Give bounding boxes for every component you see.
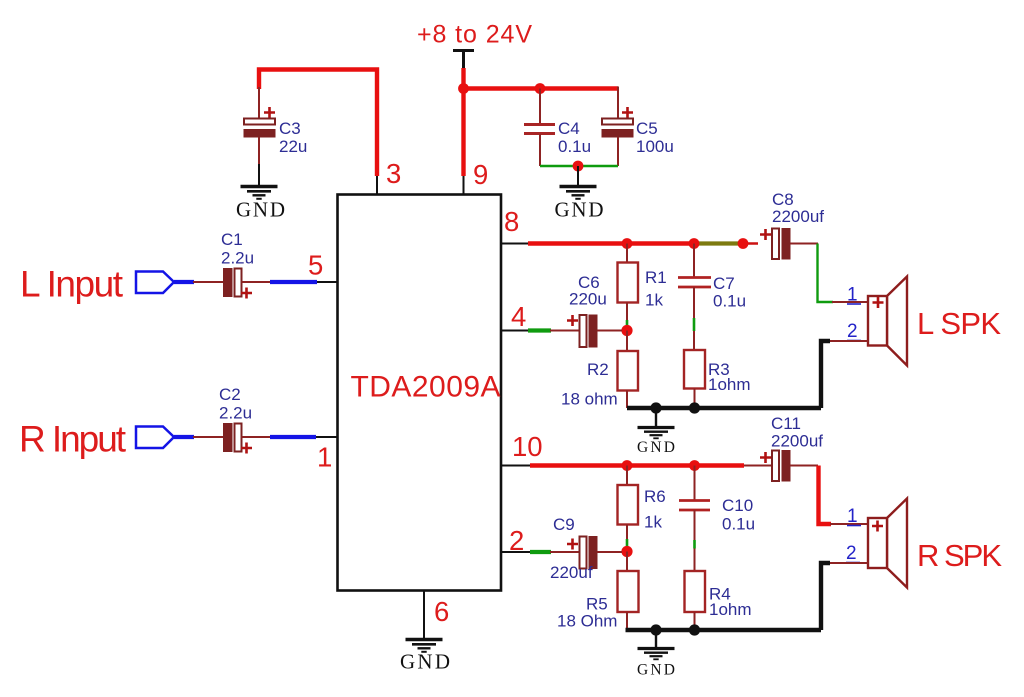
capacitor C6	[567, 273, 622, 347]
svg-text:1: 1	[847, 506, 858, 527]
node pin2 junction	[621, 546, 632, 557]
wire to C1	[193, 281, 224, 283]
node pin4 junction	[621, 325, 632, 336]
svg-text:TDA2009A: TDA2009A	[351, 371, 501, 404]
connector L input	[136, 272, 174, 294]
svg-text:2: 2	[847, 321, 858, 342]
svg-text:GND: GND	[400, 650, 450, 674]
node C7 top	[689, 238, 700, 249]
svg-text:L SPK: L SPK	[917, 306, 1001, 341]
svg-text:1k: 1k	[645, 291, 663, 310]
capacitor C4	[524, 89, 591, 167]
ground C4 C5	[555, 166, 604, 222]
svg-text:GND: GND	[637, 439, 675, 456]
wire R ground rail	[626, 628, 822, 632]
resistor R2	[561, 331, 638, 409]
resistor R5	[557, 552, 639, 631]
wire C2 out	[242, 436, 272, 438]
pin 8 wire	[502, 243, 530, 245]
IC U1 TDA2009A	[338, 195, 502, 591]
svg-text:C4: C4	[558, 119, 580, 138]
pin 4 wire	[502, 330, 530, 332]
svg-text:R1: R1	[645, 268, 667, 287]
node cap gnd junction	[573, 161, 584, 172]
svg-text:C9: C9	[553, 515, 575, 534]
wire pin 9 feed	[461, 89, 465, 177]
ground L channel	[637, 408, 675, 456]
svg-text:C11: C11	[771, 414, 801, 433]
wire C3 to pin 3	[259, 70, 377, 177]
svg-text:0.1u: 0.1u	[713, 292, 746, 311]
ground C3	[236, 164, 285, 222]
svg-text:R Input: R Input	[19, 419, 127, 460]
capacitor C3	[244, 87, 307, 165]
wire supply rail	[464, 86, 619, 90]
pin 10 wire	[502, 465, 532, 467]
svg-text:2200uf: 2200uf	[771, 432, 823, 451]
svg-text:9: 9	[473, 159, 488, 190]
svg-text:10: 10	[512, 431, 543, 462]
resistor R6	[618, 466, 666, 548]
svg-text:18 ohm: 18 ohm	[561, 390, 618, 409]
wire L ground rail	[627, 406, 821, 410]
wire blue pin1	[270, 435, 316, 439]
svg-text:18 Ohm: 18 Ohm	[557, 612, 617, 631]
svg-text:6: 6	[434, 596, 449, 627]
capacitor C10	[679, 466, 755, 572]
svg-text:100u: 100u	[636, 137, 674, 156]
wire cap ground bus	[540, 165, 618, 168]
power terminal	[453, 51, 474, 70]
svg-text:C5: C5	[636, 119, 658, 138]
wire SPK2 black	[821, 341, 830, 408]
wire R SPK2 stub	[829, 562, 868, 564]
node C4 tap	[535, 83, 546, 94]
capacitor C2	[219, 385, 252, 454]
wire blue pin5	[270, 280, 317, 284]
pin 2 wire	[502, 551, 532, 553]
node R gnd tap	[650, 624, 661, 635]
svg-text:3: 3	[386, 158, 401, 189]
svg-text:C3: C3	[279, 119, 301, 138]
ground pin 6	[400, 640, 450, 674]
wire supply drop	[461, 68, 465, 89]
svg-text:R6: R6	[644, 487, 666, 506]
wire R SPK2 black	[821, 563, 830, 630]
svg-text:1k: 1k	[644, 513, 662, 532]
node R1 top	[622, 238, 633, 249]
node R6 top	[622, 460, 633, 471]
speaker L SPK	[868, 277, 907, 366]
svg-text:4: 4	[511, 301, 526, 332]
capacitor C8	[760, 190, 824, 259]
wire R SPK1 stub	[830, 523, 868, 525]
svg-text:2: 2	[846, 543, 857, 564]
wire L in blue stub	[174, 280, 194, 284]
node C10 top	[689, 460, 700, 471]
wire C1 out	[242, 281, 272, 283]
wire C11 to SPK1 red	[819, 466, 832, 525]
ground R channel	[637, 630, 675, 679]
svg-text:C7: C7	[713, 274, 735, 293]
svg-text:2: 2	[509, 525, 524, 556]
svg-text:8: 8	[504, 206, 519, 237]
node supply junction	[458, 83, 469, 94]
svg-text:1: 1	[847, 285, 858, 306]
svg-text:0.1u: 0.1u	[558, 137, 591, 156]
wire SPK1 stub	[832, 301, 868, 303]
node L gnd tap	[650, 402, 661, 413]
svg-text:220uf: 220uf	[550, 563, 593, 582]
svg-text:1: 1	[317, 442, 332, 473]
svg-text:2.2u: 2.2u	[219, 404, 252, 423]
node C8 in	[738, 238, 749, 249]
resistor R3	[684, 350, 751, 408]
wire pin5 stub	[317, 281, 338, 283]
svg-text:C1: C1	[221, 230, 243, 249]
svg-text:GND: GND	[236, 198, 285, 222]
node R4 bottom	[689, 624, 700, 635]
resistor R1	[618, 244, 667, 328]
svg-text:0.1u: 0.1u	[722, 515, 755, 534]
svg-text:R SPK: R SPK	[917, 538, 1002, 573]
wire C8 to SPK1 green	[818, 244, 834, 303]
pin 6 wire	[423, 591, 425, 640]
svg-text:L Input: L Input	[20, 264, 124, 305]
wire to C2	[193, 436, 224, 438]
connector R input	[136, 427, 174, 449]
wire R in blue stub	[174, 435, 194, 439]
svg-text:C10: C10	[722, 496, 753, 515]
speaker R SPK	[868, 499, 907, 588]
node R3 bottom	[689, 402, 700, 413]
svg-text:5: 5	[308, 250, 323, 281]
wire pin8 olive segment	[694, 241, 739, 245]
svg-text:1ohm: 1ohm	[708, 375, 751, 394]
svg-text:GND: GND	[637, 662, 675, 679]
svg-text:R2: R2	[587, 360, 609, 379]
svg-text:1ohm: 1ohm	[709, 600, 752, 619]
capacitor C1	[221, 230, 254, 299]
capacitor C11	[744, 414, 823, 481]
svg-text:GND: GND	[555, 198, 604, 222]
wire SPK2 stub	[829, 340, 868, 342]
svg-text:22u: 22u	[279, 137, 307, 156]
capacitor C7	[678, 244, 746, 351]
svg-text:2.2u: 2.2u	[221, 249, 254, 268]
svg-text:220u: 220u	[569, 290, 607, 309]
svg-text:C2: C2	[219, 385, 241, 404]
resistor R4	[685, 571, 752, 630]
capacitor C5	[602, 87, 674, 167]
svg-text:+8 to 24V: +8 to 24V	[417, 21, 532, 49]
wire pin1 stub	[316, 436, 338, 438]
capacitor C9	[550, 515, 622, 582]
svg-text:2200uf: 2200uf	[772, 207, 824, 226]
